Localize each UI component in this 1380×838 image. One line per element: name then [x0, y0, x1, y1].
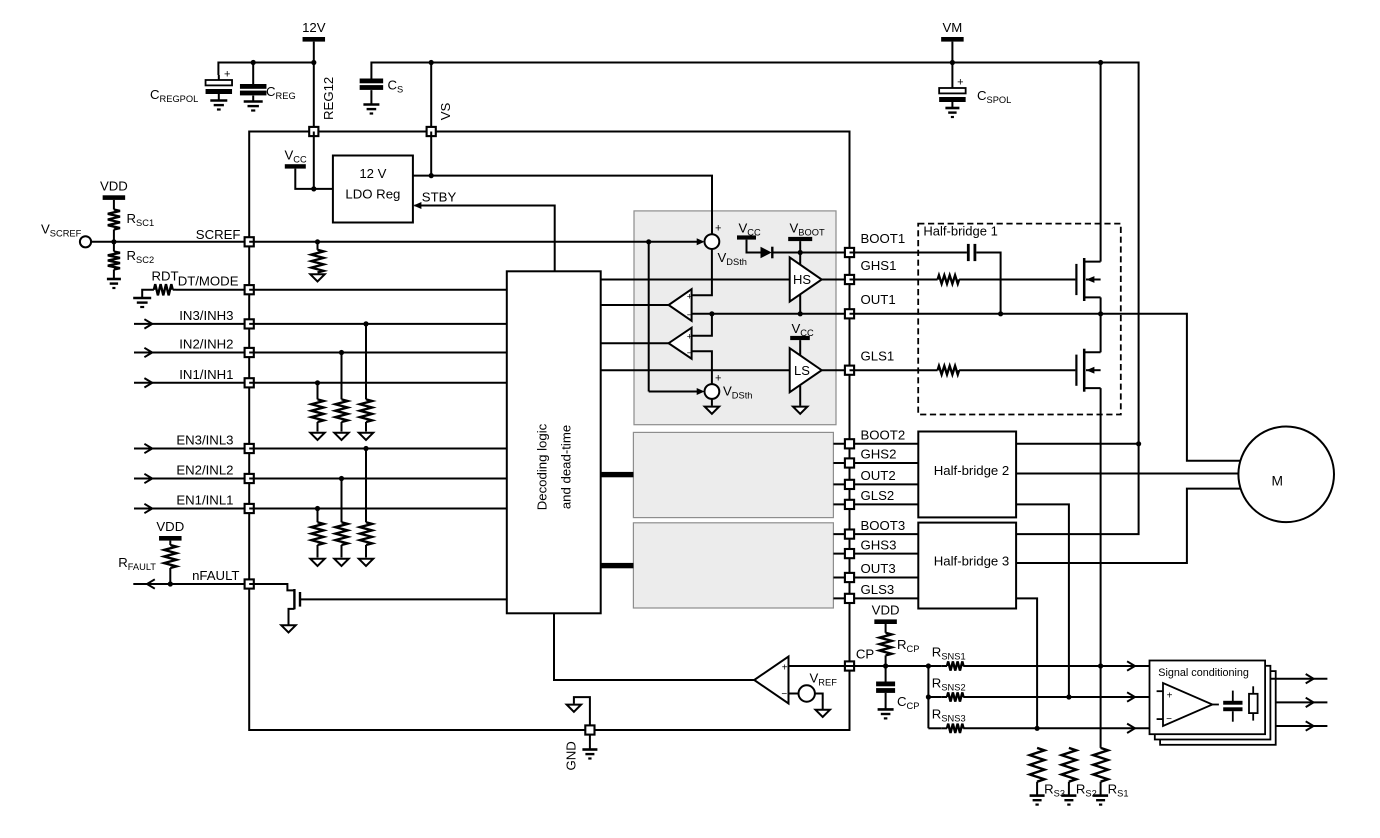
ground CS	[363, 103, 379, 106]
svg-text:−: −	[687, 310, 693, 321]
pin GHS1	[845, 275, 854, 284]
svg-text:SCREF: SCREF	[196, 227, 241, 242]
arrow EN2/INL2	[144, 474, 152, 483]
svg-text:and dead-time: and dead-time	[559, 425, 574, 509]
supply VM	[941, 37, 964, 42]
ground RDT	[133, 297, 151, 300]
wire GND external	[589, 735, 591, 750]
half-bridge 3 box	[918, 523, 1016, 609]
node RSNS1-RS	[1098, 663, 1103, 668]
current source VDSth low	[705, 384, 720, 399]
pin CP	[845, 661, 854, 670]
resistor IN3 pulldown	[365, 324, 367, 400]
wire VDSth low to ground	[711, 399, 713, 406]
capacitor CCP	[885, 666, 887, 682]
ground CCP	[878, 708, 894, 711]
svg-text:+: +	[224, 69, 230, 81]
gate driver block 2 (gray)	[633, 432, 833, 517]
wire EN3/INL3	[134, 448, 249, 450]
svg-text:BOOT2: BOOT2	[861, 428, 906, 443]
svg-text:VDD: VDD	[872, 602, 900, 617]
pin BOOT2	[845, 439, 854, 448]
svg-text:HS: HS	[793, 272, 811, 287]
terminal VSCREF	[80, 236, 91, 247]
wire Q1L drain from OUT1	[1100, 314, 1102, 353]
svg-text:Half-bridge 1: Half-bridge 1	[923, 223, 997, 238]
svg-text:VDD: VDD	[156, 519, 184, 534]
svg-text:+: +	[957, 77, 963, 89]
svg-text:GLS1: GLS1	[861, 349, 895, 364]
pin SCREF	[245, 237, 254, 246]
ground arrow EN2 pulldown	[334, 559, 348, 566]
wire RSNS1 to signal conditioning	[963, 665, 1149, 667]
wire Q-nFAULT gate	[301, 598, 507, 600]
svg-text:STBY: STBY	[422, 190, 457, 205]
wire RSNS2 to signal conditioning	[963, 696, 1149, 698]
wire GHS3	[833, 553, 918, 555]
wire REG12 node rail	[218, 63, 313, 76]
wire CP to comparator	[789, 665, 850, 667]
pin GHS3	[845, 549, 854, 558]
wire U1 output to decode	[601, 304, 669, 306]
wire OUT1 external to motor	[850, 314, 1241, 461]
svg-text:LS: LS	[794, 363, 810, 378]
pin GND	[585, 725, 594, 734]
arrow RSNS3	[1127, 724, 1135, 733]
wire VS	[430, 63, 432, 132]
pin nFAULT	[245, 579, 254, 588]
resistor RSC1	[113, 200, 115, 210]
svg-text:+: +	[782, 663, 788, 674]
pin DT/MODE	[245, 285, 254, 294]
ground arrow SCREF pulldown	[310, 274, 324, 281]
wire DT/MODE	[176, 289, 249, 291]
wire Q1L source to RS1	[1100, 388, 1102, 748]
node CP-RCP	[883, 663, 888, 668]
12V LDO regulator block U-LDO	[333, 156, 413, 223]
capacitor CREGPOL (polarized)	[218, 75, 220, 80]
wire drain FET Q1H from VM rail	[1100, 63, 1102, 262]
resistor RSNS2	[942, 696, 947, 698]
svg-text:OUT2: OUT2	[861, 468, 896, 483]
wire comp link vertical	[692, 314, 712, 336]
pin BOOT3	[845, 530, 854, 539]
wire EN2 internal	[249, 478, 507, 480]
node IN1 pulldown tap	[315, 380, 320, 385]
node rail-VS	[429, 60, 434, 65]
resistor RCP	[885, 624, 887, 633]
arrow IN3/INH3	[144, 319, 152, 328]
wire IN1 internal	[249, 382, 507, 384]
comparator U1 (high side VDS)	[669, 289, 692, 321]
wire BOOT3	[833, 533, 918, 535]
wire IN1/INH1	[134, 382, 249, 384]
svg-text:GHS1: GHS1	[861, 258, 897, 273]
arrow EN3/INL3	[144, 444, 152, 453]
wire GND internal	[574, 697, 590, 725]
svg-text:M: M	[1271, 474, 1283, 489]
ground arrow IN2 pulldown	[334, 433, 348, 440]
signal conditioning stack (middle)	[1155, 666, 1271, 740]
motor M	[1238, 427, 1334, 523]
wire EN1/INL1	[134, 508, 249, 510]
node RSNS3-RS	[1035, 726, 1040, 731]
node EN1 pulldown tap	[315, 506, 320, 511]
wire IN2 internal	[249, 352, 507, 354]
arrow into VDSth high	[649, 241, 703, 243]
wire 12V to REG12 pin	[313, 42, 315, 132]
resistor RDT	[142, 290, 154, 298]
node SCREF divider	[111, 239, 116, 244]
ground CREG	[244, 100, 263, 103]
svg-text:Decoding logic: Decoding logic	[535, 423, 550, 510]
wire VS to LDO and VDSth supply	[430, 132, 432, 176]
ground arrow VDSth low	[705, 407, 719, 414]
svg-text:REG12: REG12	[321, 77, 336, 120]
svg-text:EN3/INL3: EN3/INL3	[176, 433, 233, 448]
comparator U2 (low side VDS)	[669, 328, 692, 359]
node VS-LDO	[429, 173, 434, 178]
svg-text:EN1/INL1: EN1/INL1	[176, 493, 233, 508]
pin OUT2	[845, 480, 854, 489]
svg-text:EN2/INL2: EN2/INL2	[176, 463, 233, 478]
pin OUT3	[845, 573, 854, 582]
resistor EN2 pulldown	[341, 479, 343, 523]
gate driver block 1 (gray)	[634, 211, 836, 425]
signal conditioning block	[1150, 661, 1266, 735]
svg-text:+: +	[687, 292, 693, 303]
node BOOT1-HS	[798, 250, 803, 255]
wire EN2/INL2	[134, 478, 249, 480]
wire GLS3	[833, 597, 918, 599]
wire U2 output to decode	[601, 342, 669, 344]
svg-text:IN1/INH1: IN1/INH1	[179, 367, 233, 382]
capacitor CSPOL (polarized)	[951, 63, 953, 89]
svg-text:+: +	[715, 373, 721, 385]
wire HB3 out	[1016, 489, 1240, 563]
resistor RS2	[1062, 748, 1077, 782]
capacitor CS	[360, 79, 384, 84]
node IN3 pulldown tap	[363, 321, 368, 326]
signal conditioning stack (back)	[1160, 671, 1276, 745]
pin VS	[427, 127, 436, 136]
wire SCREF to VDSth sources	[646, 239, 651, 244]
transistor Q-nFAULT (open drain)	[249, 584, 294, 590]
decoding logic block	[507, 271, 601, 613]
resistor SCREF pulldown	[315, 239, 320, 244]
resistor R-GLS1	[938, 366, 960, 374]
wire HS to OUT1	[799, 295, 801, 314]
IC boundary	[249, 132, 849, 731]
svg-text:12 V: 12 V	[359, 166, 386, 181]
svg-text:+: +	[1167, 691, 1173, 702]
svg-text:BOOT1: BOOT1	[861, 231, 906, 246]
wire SCREF internal	[249, 241, 649, 243]
wire BOOT1 external	[850, 252, 967, 254]
wire HB3 source to RS3	[1016, 598, 1037, 728]
op-amp in signal conditioning	[1163, 683, 1212, 726]
arrow EN1/INL1	[144, 504, 152, 513]
wire LS to ground	[799, 386, 801, 406]
pin EN3/INL3	[245, 444, 254, 453]
svg-text:OUT1: OUT1	[861, 292, 896, 307]
ground CSPOL	[945, 107, 959, 110]
resistor RSNS1	[942, 665, 947, 667]
wire nFAULT	[133, 583, 249, 585]
svg-text:Half-bridge 2: Half-bridge 2	[934, 463, 1010, 478]
supply 12V	[303, 37, 326, 42]
resistor RSC2	[113, 242, 115, 252]
wire VREF to ground	[815, 694, 823, 710]
pin IN3/INH3	[245, 319, 254, 328]
svg-text:CP: CP	[856, 647, 875, 662]
ground RSC2	[107, 278, 121, 281]
wire U2 lower input	[692, 351, 712, 384]
node rail-12V	[311, 60, 316, 65]
node RSNS2-RS	[1066, 694, 1071, 699]
pin GLS3	[845, 594, 854, 603]
arrow nFAULT (output)	[147, 579, 155, 588]
resistor RSNS3	[942, 727, 947, 729]
half-bridge 1 dashed box	[918, 224, 1121, 415]
svg-text:GHS2: GHS2	[861, 447, 897, 462]
wire LS input row	[601, 369, 790, 371]
svg-text:VDD: VDD	[100, 178, 128, 193]
supply VDD (nFAULT pullup)	[159, 536, 182, 541]
svg-text:+: +	[687, 332, 693, 343]
wire HS driver input	[601, 279, 790, 281]
wire GHS1 external	[850, 279, 938, 281]
node rail-CREG	[251, 60, 256, 65]
svg-text:−: −	[781, 689, 787, 700]
arrow RSNS1	[1127, 661, 1135, 670]
resistor EN3 pulldown	[365, 449, 367, 523]
svg-text:RDT: RDT	[152, 269, 179, 284]
wire SNS vertical	[927, 666, 929, 728]
wire GHS2	[833, 462, 918, 464]
wire VDSth high to comparator	[692, 249, 712, 295]
wire DT/MODE internal	[249, 289, 507, 291]
node boot-OUT1	[998, 311, 1003, 316]
wire GLS1 external	[850, 369, 938, 371]
svg-text:Signal conditioning: Signal conditioning	[1158, 667, 1249, 679]
pin IN2/INH2	[245, 348, 254, 357]
ground arrow EN3 pulldown	[359, 559, 373, 566]
wire RSNS3 to signal conditioning	[963, 727, 1149, 729]
comparator U-CP	[754, 657, 788, 704]
pin BOOT1	[845, 248, 854, 257]
pin GHS2	[845, 458, 854, 467]
wire IN3 internal	[249, 323, 507, 325]
wire OUT2	[833, 483, 918, 485]
ground RS3	[1030, 794, 1045, 797]
wire EN1 internal	[249, 508, 507, 510]
node EN2 pulldown tap	[339, 476, 344, 481]
svg-text:+: +	[715, 223, 721, 235]
node VM-HB2	[1136, 441, 1141, 446]
resistor R-GHS1	[938, 275, 960, 283]
wire BOOT1 to HS driver	[799, 253, 801, 265]
arrow STBY into LDO	[413, 202, 421, 209]
resistor EN1 pulldown	[317, 509, 319, 523]
pin GLS1	[845, 366, 854, 375]
ground arrow LS	[793, 407, 807, 414]
svg-text:IN2/INH2: IN2/INH2	[179, 337, 233, 352]
svg-text:VM: VM	[943, 20, 963, 35]
wire SCREF	[91, 241, 249, 243]
svg-text:nFAULT: nFAULT	[192, 568, 239, 583]
ground arrow internal GND	[567, 705, 581, 712]
wire GLS2	[833, 503, 918, 505]
svg-text:12V: 12V	[302, 20, 326, 35]
pin REG12	[309, 127, 318, 136]
node REG12-VCC	[311, 186, 316, 191]
supply VDD (RCP)	[874, 619, 897, 624]
wire EN3 internal	[249, 448, 507, 450]
node rail-drain1	[1098, 60, 1103, 65]
wire BOOT2	[833, 443, 918, 445]
wire Q1H source to OUT1	[1100, 297, 1102, 313]
pin EN1/INL1	[245, 504, 254, 513]
pin EN2/INL2	[245, 474, 254, 483]
svg-text:IN3/INH3: IN3/INH3	[179, 308, 233, 323]
ground arrow IN1 pulldown	[310, 433, 324, 440]
svg-text:OUT3: OUT3	[861, 561, 896, 576]
resistor RFAULT	[169, 541, 171, 545]
svg-text:GLS2: GLS2	[861, 488, 895, 503]
svg-text:LDO Reg: LDO Reg	[345, 187, 400, 202]
wire STBY	[415, 206, 555, 272]
ground RS1	[1093, 794, 1108, 797]
wire OUT1 row internal	[692, 313, 850, 315]
wire VS supply rail	[371, 63, 1138, 535]
node rail-VM	[950, 60, 955, 65]
wire IN2/INH2	[134, 352, 249, 354]
arrow IN2/INH2	[144, 348, 152, 357]
node SNS tee	[926, 663, 931, 668]
wire IN3/INH3	[134, 323, 249, 325]
transistor Q1L (low side)	[1075, 355, 1077, 386]
svg-text:DT/MODE: DT/MODE	[178, 273, 239, 288]
source VREF	[789, 693, 799, 695]
wire VM to HB2	[1016, 443, 1139, 445]
ground arrow VREF	[816, 710, 830, 717]
pin IN1/INH1	[245, 378, 254, 387]
wire HB2 source to RS2	[1016, 504, 1069, 697]
driver HS	[790, 257, 822, 301]
svg-text:GLS3: GLS3	[861, 582, 895, 597]
bus decode to driver 3	[601, 563, 634, 568]
wire CP line	[850, 665, 942, 667]
svg-text:VS: VS	[438, 103, 453, 121]
wire HS out	[822, 279, 850, 281]
svg-text:GND: GND	[564, 741, 579, 770]
node nFAULT pullup	[168, 581, 173, 586]
supply VDD (SCREF divider)	[103, 195, 126, 200]
node EN3 pulldown tap	[363, 446, 368, 451]
capacitor in signal conditioning	[1232, 691, 1234, 702]
node Q1H-OUT1	[1098, 311, 1103, 316]
half-bridge 2 box	[918, 432, 1016, 518]
arrow into VDSth low	[697, 388, 705, 395]
wire LS out	[822, 369, 850, 371]
pin GLS2	[845, 500, 854, 509]
pin OUT1	[845, 309, 854, 318]
resistor RS1	[1093, 748, 1108, 782]
node HS-OUT1	[798, 311, 803, 316]
ground RS2	[1061, 794, 1076, 797]
wire comparator out to decode	[554, 613, 754, 680]
svg-text:−: −	[1166, 714, 1172, 725]
resistor IN2 pulldown	[341, 353, 343, 400]
svg-text:BOOT3: BOOT3	[861, 518, 906, 533]
resistor IN1 pulldown	[317, 383, 319, 400]
capacitor C-boot1	[967, 244, 970, 261]
wire OUT3	[833, 577, 918, 579]
resistor in signal conditioning	[1252, 686, 1254, 694]
wire VCC to LDO	[295, 169, 333, 189]
arrow IN1/INH1	[144, 378, 152, 387]
svg-text:Half-bridge 3: Half-bridge 3	[934, 554, 1010, 569]
arrow RSNS2	[1127, 692, 1135, 701]
wire BOOT1 internal	[772, 252, 849, 254]
svg-text:−: −	[687, 348, 693, 359]
resistor RS3	[1030, 748, 1045, 782]
gate driver block 3 (gray)	[633, 523, 833, 608]
current source VDSth high	[705, 234, 720, 249]
diode D-boot	[761, 247, 772, 259]
node IN2 pulldown tap	[339, 350, 344, 355]
ground GND	[582, 748, 597, 751]
node SNS2 tee	[926, 694, 931, 699]
capacitor CREG	[252, 63, 254, 85]
svg-text:GHS3: GHS3	[861, 537, 897, 552]
bus decode to driver 2	[601, 472, 634, 477]
ground CREGPOL	[210, 99, 227, 102]
ground arrow Q-nFAULT source	[281, 625, 295, 632]
signal conditioning outputs	[1270, 678, 1327, 680]
wire C-boot1 to OUT1	[976, 253, 1000, 314]
node OUT1-comp	[709, 311, 714, 316]
transistor Q1H (high side)	[1075, 264, 1077, 295]
ground arrow IN3 pulldown	[359, 433, 373, 440]
ground arrow EN1 pulldown	[310, 559, 324, 566]
driver LS	[790, 348, 822, 392]
wire HB2 to motor	[1016, 473, 1240, 475]
wire REG12 into chip	[313, 132, 315, 189]
